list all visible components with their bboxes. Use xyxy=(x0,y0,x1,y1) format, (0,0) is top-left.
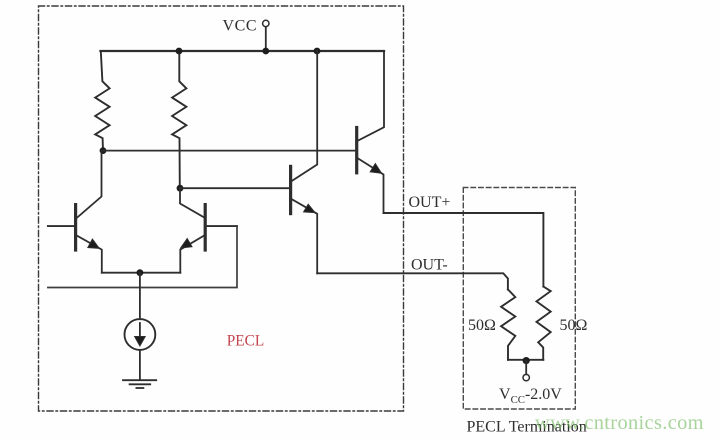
ground xyxy=(123,380,156,388)
svg-text:VCC: VCC xyxy=(223,18,258,35)
terminal VCC-2.0V xyxy=(523,374,529,380)
node: tail node xyxy=(137,269,144,276)
wire: OUT+ line xyxy=(384,213,544,287)
svg-text:PECL: PECL xyxy=(227,332,264,349)
node: rail junction at VCC stub xyxy=(262,48,269,55)
svg-text:OUT+: OUT+ xyxy=(409,194,451,211)
resistor R1 (left load) xyxy=(95,51,109,151)
svg-text:50Ω: 50Ω xyxy=(468,317,496,334)
node: rail junction at Q3 collector feed xyxy=(314,48,321,55)
wire: OUT- line xyxy=(317,273,508,289)
svg-text:www.cntronics.com: www.cntronics.com xyxy=(535,412,704,434)
wire: node B to Q3 base xyxy=(180,187,289,189)
svg-text:OUT-: OUT- xyxy=(411,257,448,274)
transistor Q1 (diff pair left) xyxy=(48,151,102,273)
transistor Q2 (diff pair right) xyxy=(180,188,237,273)
node: rail junction at R2 xyxy=(176,48,183,55)
VCC terminal xyxy=(263,20,269,26)
resistor R2 (right load) xyxy=(172,51,186,188)
wire: node A to Q4 base xyxy=(103,150,355,152)
wire: current source to ground xyxy=(139,350,141,380)
transistor Q3 (emitter follower OUT-) xyxy=(291,51,318,273)
svg-text:VCC-2.0V: VCC-2.0V xyxy=(499,386,562,406)
current source I1 xyxy=(124,319,155,350)
transistor Q4 (emitter follower OUT+) xyxy=(357,51,384,213)
resistor RT2 50ohm (right termination) xyxy=(537,287,551,360)
wire: termination resistors join xyxy=(508,359,543,361)
node B: R2 bottom junction xyxy=(177,185,184,192)
wire: VCC stub xyxy=(265,27,267,51)
node: termination join xyxy=(523,357,530,364)
wire: tail to current source xyxy=(139,273,141,320)
node A: R1 bottom junction xyxy=(100,147,107,154)
wire: stub to VTT terminal xyxy=(525,361,527,375)
wire: VCC rail xyxy=(101,50,385,52)
svg-text:50Ω: 50Ω xyxy=(560,317,588,334)
resistor RT1 50ohm (left termination) xyxy=(501,289,515,359)
PECL termination block dashed boundary xyxy=(463,188,575,410)
wire: Q2 base return (down and left) xyxy=(48,226,237,287)
PECL driver block dashed boundary xyxy=(39,6,404,411)
wire: emitters join xyxy=(102,272,181,274)
